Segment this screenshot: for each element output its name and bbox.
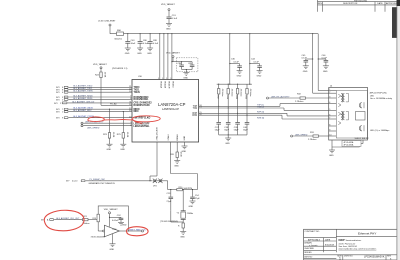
ground (C91) [166,24,172,31]
transformer TX coils [341,94,342,102]
svg-text:L3.3V_USB_ENET: L3.3V_USB_ENET [98,21,116,23]
pin PHY nINT [56,115,132,120]
wire RBIAS [176,142,178,152]
wire XTAL1 drop [149,142,157,181]
wire TXN [199,107,329,111]
power flag VDD_TARGET (top) [161,3,176,17]
svg-text:www.standardics.nxp.com/microc: www.standardics.nxp.com/microcontrollers [339,248,377,251]
svg-text:LED (Or) = 100Mbps: LED (Or) = 100Mbps [370,129,389,132]
resistor R21 [82,216,98,225]
ground (crystal) [180,232,186,239]
wire crystal bottom to C13 leg [171,211,185,232]
wire VDDIO to chip [171,34,173,80]
pin CLK_OUT (red circled) [41,217,83,222]
svg-text:9: 9 [62,118,63,120]
svg-text:REVISIONS: REVISIONS [354,0,367,2]
capacitor C43 [125,34,136,48]
svg-text:4PLD-032A: 4PLD-032A [344,141,355,144]
pin TXD0 [56,85,132,90]
wire VDD2A to chip [163,34,165,80]
pin clock out to PHY (red circled) [128,229,146,232]
svg-text:(TX-SUS SUSPEND): (TX-SUS SUSPEND) [160,221,178,223]
svg-text:TXN: TXN [193,108,198,110]
svg-text:10.0K: 10.0K [104,72,106,78]
chip bottom pin names (vertical) [156,127,186,140]
svg-text:GENERATE PHY 50MHZ IN: GENERATE PHY 50MHZ IN [89,182,116,185]
svg-text:7: 7 [329,118,330,120]
capacitor C85 [188,62,194,70]
svg-text:APPROVED: APPROVED [386,2,398,5]
wire TXP [199,104,329,107]
chip left pin names [134,87,153,128]
capacitor C44 [249,59,262,71]
svg-text:GND: GND [122,224,127,226]
footprint note boxes [342,141,361,147]
svg-text:GND: GND [303,71,308,73]
svg-text:0.1uF: 0.1uF [153,43,159,45]
svg-text:VDD2A: VDD2A [164,81,167,89]
resistor R26 12.1K [170,152,182,161]
svg-text:5: 5 [329,109,330,111]
wire RXP [199,112,329,116]
svg-text:RXN: RXN [192,115,197,117]
revision table [318,0,399,12]
resistor R32 [295,93,329,103]
inverter U13 [91,225,129,244]
svg-text:RXER/PHYAD0: RXER/PHYAD0 [134,104,151,107]
svg-text:0.01uF: 0.01uF [112,220,119,222]
svg-text:LED2/nINTSEL: LED2/nINTSEL [134,126,151,128]
svg-text:3V3: 3V3 [56,92,59,94]
power flag VDD_TARGET (U13) [104,208,121,227]
svg-text:LINK_SPEED: LINK_SPEED [295,134,308,136]
capacitor C84 [178,62,184,70]
svg-text:48F-01GYDPL2NL: 48F-01GYDPL2NL [370,92,388,94]
resistor R27 49.9ohm [216,84,223,106]
svg-text:R19: R19 [93,218,96,220]
pin RXD0 [56,94,132,99]
wire 3.3V bus [110,33,318,35]
IC U10 LAN8720A-CP [132,76,199,142]
svg-text:4,5,10: 4,5,10 [72,181,77,183]
transformer RX coils [341,112,342,120]
capacitor C39 [234,113,240,135]
pin TXD1 [56,87,132,92]
svg-text:74LVC1G04GW: 74LVC1G04GW [91,237,105,239]
capacitor C40 [243,115,249,135]
svg-text:4: 4 [329,102,330,104]
svg-text:1: 1 [62,112,63,114]
svg-text:REV: REV [318,3,323,5]
wire VDDCR to chip [167,34,169,80]
page right border [396,0,398,260]
svg-text:VDDCR: VDDCR [168,81,170,89]
svg-text:TXN (2): TXN (2) [257,107,264,109]
svg-text:VDD_TARGET: VDD_TARGET [93,63,108,66]
svg-text:3V3: 3V3 [56,118,59,120]
ground (C45) [303,66,309,73]
svg-text:Ethernet PHY: Ethernet PHY [358,232,376,236]
svg-text:2.2Kohm: 2.2Kohm [295,101,304,103]
svg-text:3V3: 3V3 [56,112,59,114]
svg-text:3V3: 3V3 [54,103,57,105]
svg-text:GND: GND [184,135,186,140]
pin LINK_SPEED (LED wire) [291,134,313,137]
svg-text:500KPPM: 500KPPM [184,188,193,190]
wire VDD drop to termination rail (right) [249,34,251,84]
ground (term caps) [225,138,231,145]
capacitor C92 [112,215,123,223]
annotation red ellipse (gate output) [126,227,148,236]
svg-text:2: 2 [329,92,330,94]
svg-text:GND: GND [125,53,130,55]
svg-text:DESCRIPTION: DESCRIPTION [343,3,358,5]
ground (C30) [237,71,243,78]
J4 left pin stubs [329,91,337,137]
capacitor C88 [148,34,159,48]
svg-text:49.9ohm: 49.9ohm [221,89,223,97]
wire caps common to gnd [182,69,193,71]
svg-text:3: 3 [329,97,330,99]
chip left pin numbers [129,86,132,126]
svg-text:LAN8720A-CP: LAN8720A-CP [158,102,186,107]
svg-text:VDD_TARGET: VDD_TARGET [166,52,181,55]
resistor R24 pull-up and RXER wire [93,63,132,106]
svg-text:GL3_AUXNET_TXEN: GL3_AUXNET_TXEN [73,90,93,93]
pin RXD1 [56,97,132,102]
wire VDD drop right A [313,34,329,93]
scrollbar thumb [392,7,397,38]
svg-text:GND: GND [120,149,125,151]
resistor R30 49.9ohm [245,84,252,115]
svg-text:SHLD1 SHLD2: SHLD1 SHLD2 [355,138,370,140]
pin TXEN [56,90,132,95]
capacitor C13 27pF [167,189,174,211]
pin LINK_RX_ACTIVITY (LED wire) [267,95,301,99]
svg-text:GND: GND [174,166,179,168]
svg-text:VDD1A: VDD1A [160,81,163,89]
svg-text:49.9ohm: 49.9ohm [240,89,242,97]
svg-text:GL3_AUXNET_CRS_DV: GL3_AUXNET_CRS_DV [72,100,95,103]
svg-text:VDDIO: VDDIO [172,81,174,88]
svg-text:2.2Kohm: 2.2Kohm [308,139,317,141]
svg-text:ISSUED: ISSUED [304,252,312,254]
resistor R31 [308,132,329,141]
ground (C43) [125,48,131,55]
LED green [359,102,364,108]
capacitor C91 [167,15,178,23]
crystal Y2 [177,190,194,222]
ground (C46) [323,66,329,73]
svg-text:4: 4 [62,92,63,94]
svg-text:600ohm: 600ohm [115,39,123,41]
svg-text:3V7: 3V7 [66,181,69,183]
svg-text:5: 5 [62,99,63,101]
svg-text:9: 9 [329,130,330,132]
svg-text:8: 8 [329,125,330,127]
svg-text:GND: GND [323,71,328,73]
ground (R25) [120,144,126,151]
pin MDIO [56,107,132,112]
svg-text:TXEN: TXEN [134,92,140,94]
capacitor C14 27pF [190,189,200,201]
svg-text:GND: GND [180,237,185,239]
ground (C88) [147,48,153,55]
svg-text:0.1uF: 0.1uF [254,62,260,64]
svg-text:DWG NO: DWG NO [304,256,313,258]
pin L3.3V_USB_ENET [98,21,116,34]
wire caps bottom rail [219,134,247,136]
chip right pin names [192,106,197,117]
svg-text:2: 2 [60,103,61,105]
wire VDD drop right B (bus end) [318,34,329,91]
internal termination block [356,112,366,121]
svg-text:4PLD-032A: 4PLD-032A [344,144,355,147]
svg-text:1: 1 [339,256,341,260]
svg-text:CONTRACT NO.: CONTRACT NO. [305,230,321,233]
ground (U13) [110,244,116,251]
svg-text:San Jose, CA 95134: San Jose, CA 95134 [339,245,358,248]
svg-text:3V3: 3V3 [56,99,59,101]
capacitor C37 [215,106,221,135]
svg-text:27pF: 27pF [167,201,172,203]
svg-text:49.9ohm: 49.9ohm [230,89,232,97]
svg-text:GND: GND [237,76,242,78]
wire VDD drop to termination rail (left) [229,34,231,84]
ground (C14) [189,201,196,208]
annotation red ellipse (clk out pin) [44,210,84,231]
capacitor C45 [302,55,314,66]
svg-text:LINK_SPEED: LINK_SPEED [87,128,100,130]
ground (C44) [257,71,263,78]
svg-text:GND: GND [110,249,115,251]
svg-text:XTAL1/CLKIN: XTAL1/CLKIN [156,127,159,140]
ground (R26) [174,161,180,168]
scrollbar corner dark [397,0,400,6]
svg-text:MDC: MDC [134,111,140,113]
annotation red underline + ellipse (nINT pin) [88,116,160,123]
svg-text:GND: GND [329,155,334,157]
wire VDD1A to chip [159,34,161,80]
node junctions on bus [127,33,128,34]
wire frame around U13 supply [98,206,129,232]
capacitor C46 [318,55,329,66]
power flag VDD_TARGET (VDDCR filter) [166,52,192,63]
pin MDC [56,109,132,114]
left header pins TXD0..CRS_DV [54,85,132,105]
wire GND pin of chip [182,142,188,153]
svg-text:GL3_AUXNET_MDC: GL3_AUXNET_MDC [73,109,92,112]
svg-text:6: 6 [329,114,330,116]
svg-text:GND: GND [137,53,142,55]
svg-text:CHECKED: CHECKED [304,248,314,250]
ground (C92) [118,222,127,226]
svg-text:GND: GND [225,143,230,145]
svg-text:1: 1 [329,89,330,91]
resistor R23 (MDIO pull) [103,109,114,144]
svg-text:PL_50MHZ_OSC: PL_50MHZ_OSC [90,179,106,181]
svg-text:0.1uF: 0.1uF [172,18,178,20]
wire termination VDD rail [217,83,252,85]
svg-text:56pF: 56pF [243,129,248,131]
svg-text:49.9ohm: 49.9ohm [249,89,251,97]
svg-text:GL3_AUXNET_RXD1: GL3_AUXNET_RXD1 [73,97,93,100]
svg-text:GND: GND [107,149,112,151]
svg-text:PU_A0: PU_A0 [110,103,117,106]
svg-text:GND: GND [182,151,187,153]
capacitor C30 [229,59,242,71]
svg-text:GND: GND [166,29,171,31]
pin LED1 LINK_RX_ACTIVITY [81,121,132,125]
pin names top (vertical) [160,81,174,89]
svg-text:(PHY ADRS 1:1): (PHY ADRS 1:1) [112,67,128,70]
jumper X2 (DNP crossed) [153,179,163,188]
ferrite bead FB6 [115,30,124,41]
svg-text:10.0K: 10.0K [112,132,114,138]
capacitor C86 [138,34,149,48]
J4 pin numbers [329,89,331,137]
title block [304,229,398,260]
svg-text:GND: GND [189,206,194,208]
svg-text:NXP: NXP [339,238,345,242]
ground (R23) [107,144,113,151]
pin CRS_DV [54,100,132,105]
scrollbar track strip [397,6,400,260]
svg-text:LAN8720A-CP: LAN8720A-CP [162,107,179,111]
svg-text:0.1uF: 0.1uF [302,57,308,59]
svg-text:RXP (3): RXP (3) [257,112,264,114]
svg-text:56pF: 56pF [215,129,220,131]
svg-text:DATE: DATE [377,2,383,5]
pin numbers top [158,78,172,80]
LED orange [359,125,364,131]
svg-text:RXN (6): RXN (6) [257,117,265,119]
svg-text:56pF: 56pF [224,129,229,131]
resistor R20 (crystal) [168,187,198,191]
resistor R19 (on frame left edge) [93,214,100,222]
svg-text:VDD_TARGET: VDD_TARGET [104,208,119,211]
wire XTAL2 wrap [171,142,198,190]
svg-text:Grn = 10/100Mb activity: Grn = 10/100Mb activity [370,97,393,100]
svg-text:56pF: 56pF [234,129,239,131]
svg-text:27pF: 27pF [195,198,200,200]
svg-text:0.1uF: 0.1uF [322,57,328,59]
svg-text:XTAL2: XTAL2 [167,133,170,140]
connector J4 RJ45 magjack [329,86,393,150]
svg-text:RXD1/MODE1: RXD1/MODE1 [134,99,150,101]
resistor R25 (MDC pull) [117,112,128,145]
capacitor C38 [224,108,230,135]
ground (VDDCR filter) [183,73,189,80]
ground (C86) [137,48,143,55]
svg-text:RBIAS: RBIAS [176,134,179,141]
svg-text:DWG NO.: DWG NO. [344,255,353,257]
svg-text:10: 10 [329,135,331,137]
svg-text:LPC54S018M-EVK: LPC54S018M-EVK [364,256,385,259]
svg-text:25MHz: 25MHz [187,213,193,215]
wire XTAL1 to crystal block [162,181,168,190]
svg-text:VDD_TARGET: VDD_TARGET [161,3,176,6]
wire RXN [199,115,329,120]
resistor R29 49.9ohm [235,84,242,113]
pin 50MHz clock input [66,179,153,185]
dashed placement box [176,58,198,72]
svg-text:GL3_AUXNET_CLK_OUT: GL3_AUXNET_CLK_OUT [56,217,80,220]
svg-text:Semiconductors: Semiconductors [346,239,363,242]
svg-text:GND: GND [147,53,152,55]
svg-text:10uF: 10uF [131,43,136,45]
svg-text:LINK_RX_ACTIVITY: LINK_RX_ACTIVITY [271,95,290,98]
ground (J4 shield) [329,150,335,157]
pin LED2 LINK_SPEED [81,125,132,130]
svg-text:GND: GND [257,76,262,78]
svg-text:nINT/REFCLKO: nINT/REFCLKO [134,117,151,119]
svg-text:0.1uF: 0.1uF [234,62,240,64]
chip right pin numbers [199,105,202,116]
resistor R28 49.9ohm [226,84,233,108]
svg-text:10.0K: 10.0K [126,132,128,138]
